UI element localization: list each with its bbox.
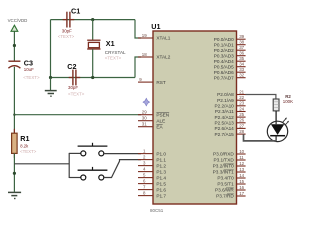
label C2 text [68, 92, 85, 97]
svg-text:13: 13 [239, 167, 244, 172]
resistor R2 [273, 99, 279, 111]
svg-text:P0.7/AD7: P0.7/AD7 [214, 75, 234, 80]
LED D1 [267, 121, 287, 141]
label C3 value [24, 67, 34, 72]
junction node C2-crystal [91, 76, 94, 79]
button SW2 [78, 167, 108, 180]
svg-text:<TEXT>: <TEXT> [58, 34, 75, 39]
wire C2 to ground [50, 78, 52, 91]
svg-text:35: 35 [239, 56, 244, 61]
svg-text:P0.4/AD4: P0.4/AD4 [214, 59, 234, 64]
svg-text:29: 29 [142, 110, 147, 115]
chip U1 left pins [138, 33, 171, 198]
svg-text:P0.3/AD3: P0.3/AD3 [214, 53, 234, 58]
junction node C2-ground [49, 76, 52, 79]
ground symbol bottom-left [8, 192, 21, 198]
svg-text:9: 9 [139, 77, 142, 82]
svg-text:P2.2/A10: P2.2/A10 [215, 104, 235, 109]
svg-text:ALE: ALE [156, 118, 165, 123]
svg-text:P2.7/A15: P2.7/A15 [215, 132, 235, 137]
svg-text:U1: U1 [151, 22, 160, 31]
svg-text:30pF: 30pF [62, 28, 72, 33]
svg-text:31: 31 [142, 122, 147, 127]
svg-text:7: 7 [143, 185, 146, 190]
svg-text:P2.1/A9: P2.1/A9 [217, 98, 234, 103]
svg-text:P3.7/RD: P3.7/RD [216, 194, 234, 199]
svg-text:VCC/VDD: VCC/VDD [8, 18, 28, 23]
svg-text:P3.2/INT0: P3.2/INT0 [213, 164, 235, 169]
wire button1 to P1.0 [104, 153, 141, 155]
svg-text:XTAL1: XTAL1 [156, 36, 170, 41]
power terminal VCC/VDD label [8, 18, 28, 23]
junction node C1-crystal [91, 18, 94, 21]
svg-text:18: 18 [142, 52, 147, 57]
svg-text:11: 11 [239, 155, 244, 160]
capacitor C1 [63, 12, 74, 28]
wire R2 to LED [275, 111, 277, 122]
svg-text:1: 1 [143, 149, 146, 154]
label X1 text [105, 56, 122, 61]
svg-text:P1.2: P1.2 [156, 163, 166, 168]
svg-text:P3.6/WR: P3.6/WR [215, 188, 234, 193]
label X1 name [105, 50, 126, 55]
svg-text:34: 34 [239, 62, 244, 67]
svg-text:<TEXT>: <TEXT> [105, 56, 122, 61]
svg-text:30pF: 30pF [68, 85, 78, 90]
svg-text:22: 22 [239, 95, 244, 100]
svg-text:26: 26 [239, 118, 244, 123]
wire buttons left bus [68, 153, 70, 178]
wire crystal bottom lead [92, 49, 94, 78]
svg-text:33: 33 [239, 67, 244, 72]
svg-text:XTAL2: XTAL2 [156, 55, 170, 60]
resistor R1 [12, 129, 18, 158]
ground symbol under C2 [45, 91, 57, 97]
label U1 value 80C51 [150, 208, 164, 213]
svg-text:14: 14 [239, 173, 244, 178]
svg-text:37: 37 [239, 45, 244, 50]
svg-text:15: 15 [239, 179, 244, 184]
svg-text:C1: C1 [71, 7, 80, 16]
svg-text:<TEXT>: <TEXT> [23, 75, 40, 80]
svg-text:27: 27 [239, 123, 244, 128]
svg-text:39: 39 [239, 34, 244, 39]
svg-text:10: 10 [239, 149, 244, 154]
svg-text:P1.1: P1.1 [156, 157, 166, 162]
svg-text:<TEXT>: <TEXT> [20, 149, 37, 154]
svg-text:8: 8 [143, 191, 146, 196]
svg-text:25: 25 [239, 112, 244, 117]
wire C1 net top [51, 19, 136, 21]
svg-text:P2.0/A8: P2.0/A8 [217, 92, 234, 97]
svg-text:P1.6: P1.6 [156, 187, 166, 192]
wire crystal top lead [92, 20, 94, 41]
chip U1 right pins [213, 34, 246, 199]
svg-text:21: 21 [239, 89, 244, 94]
svg-text:P3.3/INT1: P3.3/INT1 [213, 170, 235, 175]
wire to button1 left [69, 152, 81, 154]
crystal X1 [87, 40, 100, 49]
capacitor C3 [8, 61, 20, 68]
svg-text:32: 32 [239, 73, 244, 78]
label C1 ref [71, 7, 80, 16]
svg-text:17: 17 [239, 191, 244, 196]
wire P2.0 to R2 [245, 95, 276, 100]
svg-text:RST: RST [156, 80, 166, 85]
svg-text:P1.0: P1.0 [156, 151, 166, 156]
svg-text:EA: EA [156, 124, 163, 129]
no-connect marker diamond [143, 98, 150, 106]
svg-text:80C51: 80C51 [150, 208, 164, 213]
wire reset node to buttons [14, 163, 69, 165]
svg-text:P3.0/RXD: P3.0/RXD [213, 152, 234, 157]
wire VCC stem [13, 31, 15, 61]
label C1 text [58, 34, 75, 39]
svg-text:PSEN: PSEN [156, 112, 169, 117]
svg-text:P1.5: P1.5 [156, 181, 166, 186]
label R1 value [20, 144, 29, 149]
wire to XTAL2 [135, 57, 141, 78]
svg-text:X1: X1 [106, 39, 115, 48]
svg-text:12: 12 [239, 161, 244, 166]
wire button2 to P1.1 [104, 160, 141, 178]
svg-text:P1.3: P1.3 [156, 169, 166, 174]
svg-text:16: 16 [239, 185, 244, 190]
svg-text:P0.0/AD0: P0.0/AD0 [214, 37, 234, 42]
label R2 ref [285, 94, 291, 99]
label C2 ref [67, 62, 76, 71]
junction dot below VCC [13, 44, 16, 47]
svg-text:P3.1/TXD: P3.1/TXD [213, 158, 234, 163]
svg-text:38: 38 [239, 40, 244, 45]
op chip U1 body [153, 31, 237, 204]
wire left rail C1 to C2 [50, 20, 52, 78]
button SW1 [78, 143, 108, 156]
svg-text:R1: R1 [20, 134, 29, 143]
label C1 value [62, 28, 72, 33]
svg-text:30: 30 [142, 116, 147, 121]
label X1 ref [106, 39, 115, 48]
svg-text:24: 24 [239, 106, 244, 111]
svg-text:5: 5 [143, 173, 146, 178]
LED arrows [282, 118, 289, 126]
svg-text:P2.3/A11: P2.3/A11 [215, 109, 234, 114]
svg-text:4: 4 [143, 167, 146, 172]
junction dot at reset node [13, 114, 15, 116]
svg-text:100K: 100K [283, 99, 293, 104]
svg-text:P0.6/AD6: P0.6/AD6 [214, 70, 234, 75]
svg-text:10uF: 10uF [24, 67, 34, 72]
label U1 ref [151, 22, 160, 31]
wire to button2 left [69, 177, 81, 179]
svg-text:8.2k: 8.2k [20, 144, 29, 149]
junction dot above ground [13, 172, 16, 175]
wire C2 net [51, 77, 136, 79]
svg-text:19: 19 [142, 33, 147, 38]
label R2 value [283, 99, 293, 104]
power terminal VCC/VDD arrow [11, 25, 18, 31]
label R1 ref [20, 134, 29, 143]
wire R1 to ground [13, 153, 15, 191]
capacitor C2 [69, 70, 81, 86]
svg-text:P1.7: P1.7 [156, 193, 166, 198]
wire LED cathode to P2.7 [244, 134, 277, 141]
svg-text:P0.2/AD2: P0.2/AD2 [214, 48, 234, 53]
label C3 text [23, 75, 40, 80]
wire to XTAL1 [135, 20, 141, 38]
label C3 ref [24, 59, 33, 68]
label R1 text [20, 149, 37, 154]
svg-text:P0.5/AD5: P0.5/AD5 [214, 64, 234, 69]
svg-text:CRYSTAL: CRYSTAL [105, 50, 126, 55]
svg-text:P2.5/A13: P2.5/A13 [215, 121, 235, 126]
svg-text:36: 36 [239, 51, 244, 56]
svg-text:28: 28 [239, 129, 244, 134]
svg-text:P2.6/A14: P2.6/A14 [215, 126, 235, 131]
svg-text:C2: C2 [67, 62, 76, 71]
label C2 value [68, 85, 78, 90]
svg-text:3: 3 [143, 161, 146, 166]
svg-text:P0.1/AD1: P0.1/AD1 [214, 42, 234, 47]
svg-text:6: 6 [143, 179, 146, 184]
svg-text:2: 2 [143, 155, 146, 160]
wire reset node to PSEN pin [14, 114, 141, 116]
svg-text:P3.4/T0: P3.4/T0 [217, 176, 234, 181]
svg-text:P2.4/A12: P2.4/A12 [215, 115, 235, 120]
svg-text:P1.4: P1.4 [156, 175, 166, 180]
wire C3 to R1 [13, 67, 15, 133]
svg-text:23: 23 [239, 101, 244, 106]
svg-text:P3.5/T1: P3.5/T1 [217, 182, 234, 187]
svg-text:<TEXT>: <TEXT> [68, 92, 85, 97]
